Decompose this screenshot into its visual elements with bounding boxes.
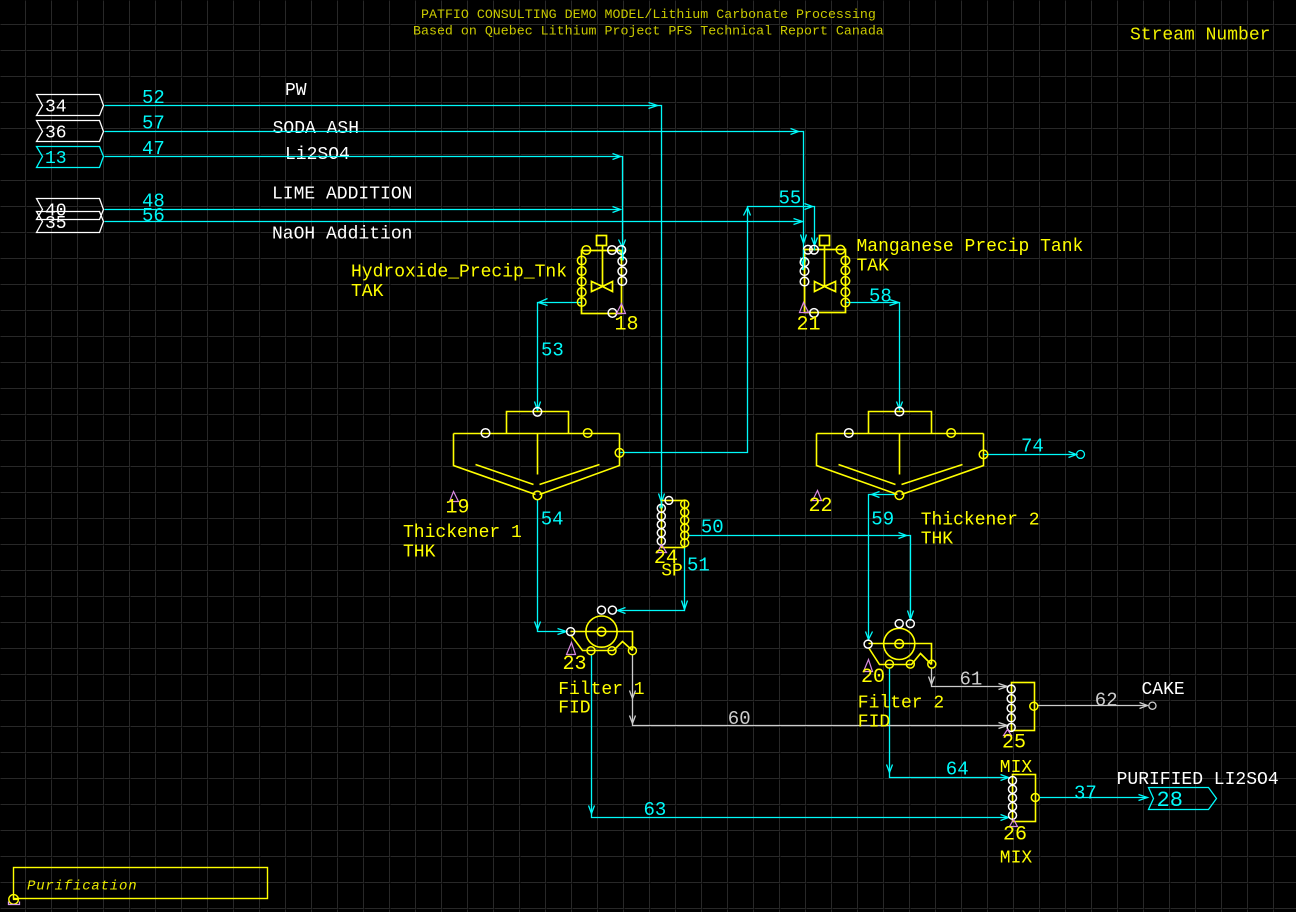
- tank U18 ports left (yellow): [577, 246, 590, 307]
- wire stream 52 PW: flag 34 to splitter 24: [105, 106, 662, 507]
- svg-text:60: 60: [728, 708, 751, 730]
- svg-text:22: 22: [809, 495, 833, 518]
- svg-text:53: 53: [541, 340, 564, 362]
- wire stream 55: thickener 19 overflow to tank 21 top port: [620, 207, 815, 453]
- mixer U25 node marker: [1004, 730, 1012, 736]
- svg-text:51: 51: [687, 555, 710, 577]
- wire stream 56 NaOH: flag 35 joining tank 21 drop line: [105, 221, 803, 223]
- feed flag 40: [37, 199, 104, 220]
- svg-text:74: 74: [1021, 436, 1044, 458]
- tank U18 node marker: [617, 304, 626, 314]
- filter U23 ports top/left (white): [567, 606, 617, 636]
- mixer U25 port right (yellow): [1030, 702, 1038, 710]
- svg-text:55: 55: [779, 187, 802, 209]
- mixer U26 node marker: [1010, 820, 1018, 827]
- filter U20 node marker: [864, 660, 873, 672]
- filter U20 Filter 2: [869, 628, 932, 664]
- splitter U24: [662, 501, 685, 548]
- svg-text:63: 63: [644, 799, 667, 821]
- svg-text:SP: SP: [661, 562, 683, 582]
- svg-text:54: 54: [541, 509, 564, 531]
- wire stream 53: tank 18 outlet to thickener 19 feedwell: [538, 303, 582, 411]
- svg-text:TAK: TAK: [857, 257, 890, 277]
- thickener U22 Thickener 2: [817, 412, 984, 495]
- mixer U26 ports left (white): [1009, 777, 1017, 820]
- svg-text:19: 19: [446, 497, 470, 520]
- svg-text:THK: THK: [403, 543, 436, 563]
- svg-text:26: 26: [1003, 824, 1027, 847]
- svg-text:Thickener 1: Thickener 1: [403, 523, 522, 543]
- mixer U26 port right (yellow): [1031, 794, 1039, 802]
- svg-text:58: 58: [869, 286, 892, 308]
- svg-text:Filter 1: Filter 1: [558, 680, 644, 700]
- svg-text:Manganese Precip Tank: Manganese Precip Tank: [857, 237, 1084, 257]
- thickener U19 Thickener 1: [454, 412, 620, 495]
- svg-text:TAK: TAK: [351, 282, 384, 302]
- wire stream 48 LIME ADDITION: flag 40 joining tank 18 drop line: [105, 209, 621, 211]
- filter U23 ports bottom (yellow): [587, 647, 636, 655]
- svg-text:Purification: Purification: [27, 879, 137, 895]
- tank U18 ports right (white): [608, 246, 627, 318]
- svg-text:47: 47: [142, 138, 165, 160]
- filter U23 Filter 1: [571, 616, 633, 651]
- filter U20 ports top/left (white): [864, 620, 914, 649]
- wire stream 62: mixer 25 outlet to CAKE terminal: [1038, 705, 1148, 707]
- terminal node stream 62 CAKE: [1149, 702, 1156, 709]
- svg-text:59: 59: [871, 509, 894, 531]
- svg-text:64: 64: [946, 759, 969, 781]
- filter U20 ports bottom (yellow): [885, 660, 935, 668]
- mixer U25 ports left (white): [1007, 685, 1015, 731]
- thickener U22 node marker: [813, 491, 822, 501]
- svg-text:23: 23: [563, 653, 587, 676]
- terminal node stream 74: [1077, 450, 1085, 458]
- svg-text:57: 57: [142, 112, 165, 134]
- thickener U19 ports: [481, 408, 624, 500]
- svg-text:Based on Quebec Lithium Projec: Based on Quebec Lithium Project PFS Tech…: [413, 24, 884, 39]
- svg-text:13: 13: [45, 149, 67, 169]
- svg-text:25: 25: [1002, 732, 1026, 755]
- wire stream 37: mixer 26 outlet to product flag 28: [1039, 797, 1148, 799]
- mixer U26: [1013, 775, 1036, 822]
- svg-text:28: 28: [1157, 788, 1183, 813]
- svg-text:61: 61: [960, 669, 983, 691]
- page anchor symbol: [9, 895, 20, 905]
- svg-text:18: 18: [615, 314, 639, 337]
- svg-text:Hydroxide_Precip_Tnk: Hydroxide_Precip_Tnk: [351, 263, 567, 283]
- svg-text:21: 21: [797, 314, 821, 337]
- splitter U24 node marker: [658, 545, 667, 553]
- splitter U24 ports right (yellow): [681, 500, 689, 547]
- wire stream 57 SODA ASH: flag 36 to tank 21 drop line: [105, 132, 804, 268]
- wire stream 50: splitter 24 to filter 20 top port: [688, 536, 911, 620]
- svg-text:62: 62: [1095, 689, 1118, 711]
- svg-text:SODA ASH: SODA ASH: [273, 119, 359, 139]
- svg-text:PATFIO CONSULTING DEMO MODEL/L: PATFIO CONSULTING DEMO MODEL/Lithium Car…: [421, 7, 876, 22]
- svg-text:50: 50: [701, 516, 724, 538]
- svg-text:LIME ADDITION: LIME ADDITION: [272, 185, 412, 205]
- svg-text:52: 52: [142, 87, 165, 109]
- wire stream 74: thickener 22 overflow to terminal: [984, 454, 1077, 456]
- svg-text:THK: THK: [921, 530, 954, 550]
- tank U21 ports left (white): [800, 245, 818, 317]
- svg-text:FID: FID: [858, 713, 890, 733]
- mixer U25: [1012, 683, 1035, 731]
- tank U21 node marker: [800, 303, 809, 313]
- svg-text:35: 35: [45, 214, 67, 234]
- wire stream 60: filter 23 cake to mixer 25: [633, 655, 1008, 726]
- thickener U19 node marker: [450, 492, 459, 502]
- svg-text:Filter 2: Filter 2: [858, 694, 944, 714]
- wire stream 51: splitter 24 to filter 23 top port: [618, 547, 685, 611]
- svg-text:36: 36: [45, 124, 67, 144]
- wire stream 63: filter 23 filtrate to mixer 26: [592, 655, 1009, 818]
- svg-text:NaOH Addition: NaOH Addition: [272, 225, 412, 245]
- wire stream 61: filter 20 cake to mixer 25: [932, 669, 1008, 687]
- feed flag 34: [37, 95, 104, 116]
- tank U18 Hydroxide_Precip_Tnk: [582, 236, 622, 314]
- svg-text:34: 34: [45, 98, 67, 118]
- product flag 28: [1149, 788, 1217, 810]
- svg-text:CAKE: CAKE: [1142, 680, 1185, 700]
- tank U21 ports right (yellow): [836, 245, 850, 307]
- feed flag 13: [37, 147, 104, 168]
- wire stream 59: thickener 22 underflow to filter 20 left port: [869, 495, 896, 640]
- svg-text:FID: FID: [558, 699, 590, 719]
- wire overlays on equipment: [623, 247, 815, 508]
- wire stream 54: thickener 19 underflow to filter 23 left port: [538, 500, 567, 632]
- wire stream 58: tank 21 outlet to thickener 22 feedwell: [846, 303, 900, 410]
- splitter U24 ports left (white): [657, 497, 673, 546]
- thickener U22 ports: [845, 407, 988, 499]
- svg-text:MIX: MIX: [1000, 849, 1033, 869]
- svg-text:20: 20: [861, 666, 885, 689]
- filter U23 node marker: [567, 643, 576, 655]
- feed flag 35: [37, 212, 104, 233]
- tank U21 Manganese Precip Tank: [805, 236, 846, 313]
- svg-text:Li2SO4: Li2SO4: [285, 145, 350, 165]
- svg-text:Stream Number: Stream Number: [1130, 26, 1270, 46]
- svg-text:37: 37: [1074, 783, 1097, 805]
- feed flag 36: [37, 121, 104, 142]
- svg-text:56: 56: [142, 205, 165, 227]
- wire stream 64: filter 20 filtrate to mixer 26: [890, 669, 1009, 778]
- svg-text:Thickener 2: Thickener 2: [921, 511, 1040, 531]
- svg-text:PW: PW: [285, 81, 307, 101]
- Purification title box: [14, 868, 268, 899]
- wire stream 47 Li2SO4: flag 13 to tank 18 drop line: [105, 157, 623, 259]
